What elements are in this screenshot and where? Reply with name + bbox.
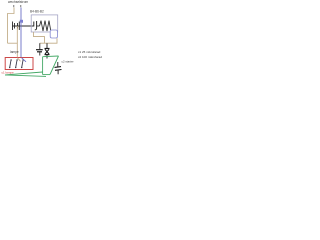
capacitor C2 lower stem: [39, 52, 41, 56]
node supply terminal right: [20, 5, 22, 7]
starter S1 stem bottom: [46, 55, 48, 59]
resistor R1 zigzag: [40, 21, 51, 31]
node junction blue: [20, 20, 23, 23]
starter callout green tail bottom: [5, 75, 46, 77]
wire ballast bottom tan: [34, 32, 45, 43]
ballast box outline: [31, 15, 58, 32]
svg-text:c1 lampe: c1 lampe: [2, 70, 15, 74]
node supply terminal left: [13, 5, 15, 7]
capacitor C3 stem: [57, 62, 59, 74]
wire main horizontal: [12, 25, 34, 27]
lamp box red: [5, 58, 33, 70]
starter S1 stem top: [46, 43, 48, 48]
starter S1 bottom cap: [45, 54, 50, 56]
svg-text:wechselstrom: wechselstrom: [8, 0, 28, 4]
capacitor C2 plate bottom: [37, 51, 42, 53]
starter S1 cross: [45, 49, 49, 54]
inductor L1 hook: [35, 21, 37, 30]
starter callout green top edge: [43, 55, 59, 58]
connector block blue rounded: [50, 30, 57, 38]
wire lower horizontal tan: [40, 38, 57, 43]
svg-text:lampe: lampe: [10, 50, 19, 54]
starter callout green tail top: [5, 72, 43, 75]
svg-text:c2 starter: c2 starter: [62, 60, 74, 64]
wire supply left tan: [8, 8, 15, 44]
wire blue inside lamp: [22, 58, 27, 62]
lamp pin 2: [16, 60, 17, 67]
lamp electrode bars: [13, 22, 20, 31]
starter callout green bottom edge: [43, 74, 50, 76]
starter callout green left edge: [42, 57, 44, 75]
capacitor C3 plate top: [55, 66, 62, 69]
wire lamp vertical tan: [16, 26, 18, 58]
lamp pin 1: [10, 60, 11, 67]
svg-text:c2 100 mikrofarad: c2 100 mikrofarad: [78, 55, 102, 59]
wire supply right blue: [20, 8, 22, 21]
starter callout green right edge: [50, 56, 59, 75]
capacitor C2 plate top: [36, 49, 43, 51]
lamp pin 3: [22, 60, 23, 67]
svg-text:B4-B6-B2: B4-B6-B2: [30, 9, 44, 13]
inductor L1 bar: [33, 22, 35, 27]
wire left lamp feed tan: [8, 42, 18, 44]
wire right lamp feed blue: [20, 23, 22, 58]
svg-text:c1 25 mikrofarad: c1 25 mikrofarad: [78, 50, 101, 54]
capacitor C3 plate bottom: [55, 69, 62, 72]
starter S1 top cap: [45, 48, 50, 50]
wire tan inside lamp: [17, 58, 20, 62]
wire inductor link: [37, 25, 40, 27]
capacitor C2 stem: [39, 43, 41, 49]
